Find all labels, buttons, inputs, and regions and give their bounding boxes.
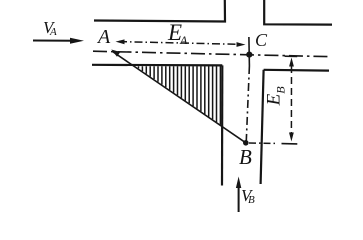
vertical road centre line below C (dash-dot) down to B [246, 66, 249, 143]
dimension line E_A (dash-dot) [119, 42, 243, 45]
node C (filled dot) [246, 52, 252, 58]
V_B velocity arrow (pointing up) [238, 186, 240, 212]
E_B dimension line (dashed shaft) [290, 66, 292, 133]
label B [239, 147, 252, 168]
E_B top tick [285, 55, 298, 57]
label E_A [168, 21, 182, 44]
E_A right arrowhead [237, 42, 246, 47]
E_B lower arrowhead (pointing down) [289, 133, 294, 142]
vertical road centre line: tick above C, solid through C [248, 37, 251, 66]
label V_B [241, 187, 251, 204]
label E_B (rotated) [265, 86, 287, 105]
E_A left arrowhead [116, 39, 125, 44]
E_B bottom tick [282, 143, 298, 145]
horizontal road centre line (dash-dot) through A and C [93, 51, 328, 56]
vertical road left edge below crossing [221, 65, 224, 185]
V_A velocity arrow [33, 40, 76, 42]
hatched triangle (vertical hatching) [139, 66, 221, 125]
label V_A [43, 19, 53, 36]
road top edge left + vertical road left edge above crossing [94, 0, 225, 22]
road bottom edge right of crossing [264, 69, 329, 72]
road bottom edge left of crossing [92, 64, 222, 67]
node B (filled dot) [243, 140, 249, 146]
label C [255, 31, 267, 49]
E_B upper arrowhead (pointing up) [289, 58, 294, 67]
line B to A (hypotenuse of hatched triangle) [113, 52, 246, 143]
arrowhead at A on line BA [111, 50, 120, 57]
vertical road right edge above crossing + road top edge right [264, 0, 332, 25]
vertical road right edge below crossing [261, 70, 264, 184]
label A [98, 27, 110, 47]
dimension extension line from B to the right (dash-dot) [249, 142, 276, 144]
